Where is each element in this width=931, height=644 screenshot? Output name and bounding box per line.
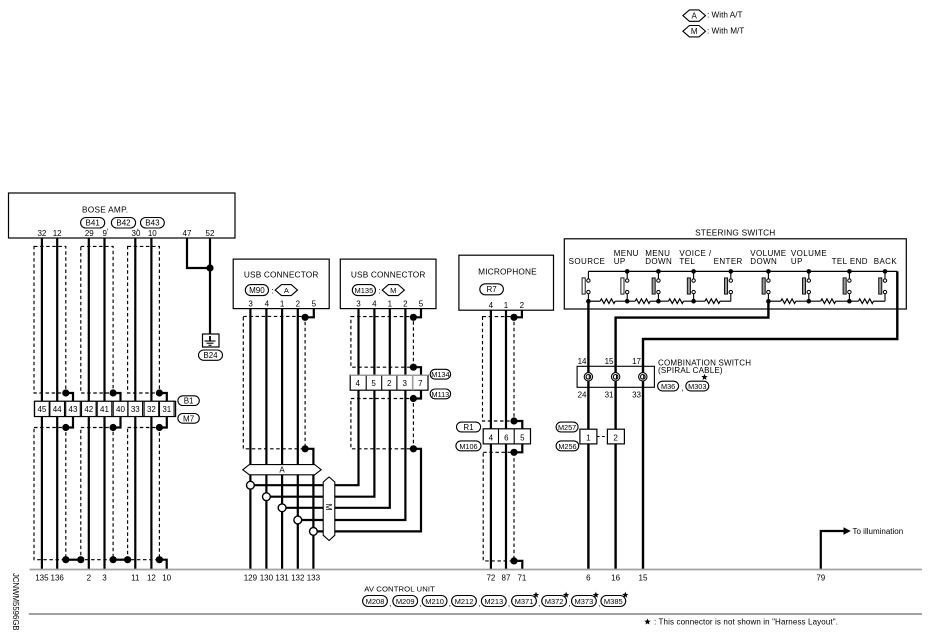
svg-text:6: 6: [586, 574, 591, 583]
svg-text:2: 2: [87, 574, 92, 583]
svg-text:A: A: [279, 466, 285, 475]
svg-text:132: 132: [291, 574, 305, 583]
svg-text:SOURCE: SOURCE: [569, 257, 606, 266]
svg-text:B24: B24: [203, 351, 218, 360]
svg-text:M: M: [691, 27, 698, 36]
svg-text:31: 31: [162, 405, 171, 414]
svg-text:4: 4: [355, 379, 360, 388]
svg-text:7: 7: [418, 379, 423, 388]
svg-text:UP: UP: [791, 257, 803, 266]
svg-text:129: 129: [244, 574, 258, 583]
svg-text:,: ,: [681, 384, 683, 393]
svg-text:: With A/T: : With A/T: [707, 11, 742, 20]
svg-text:M: M: [324, 503, 334, 510]
svg-text:M371: M371: [515, 597, 534, 606]
svg-text:To illumination: To illumination: [853, 527, 904, 536]
svg-text:3: 3: [102, 574, 107, 583]
svg-text:29: 29: [85, 229, 94, 238]
svg-text:,: ,: [538, 599, 540, 608]
svg-text:31: 31: [605, 391, 614, 400]
svg-text:33: 33: [632, 391, 641, 400]
svg-text:M257: M257: [558, 423, 576, 432]
svg-text:41: 41: [100, 405, 109, 414]
svg-text:B1: B1: [184, 397, 194, 406]
svg-text:DOWN: DOWN: [750, 257, 777, 266]
svg-text:M: M: [390, 286, 396, 295]
svg-text:45: 45: [37, 405, 46, 414]
svg-text:M373: M373: [575, 597, 594, 606]
svg-text:52: 52: [206, 229, 215, 238]
svg-text:2: 2: [403, 299, 408, 308]
svg-text:R7: R7: [486, 285, 497, 294]
svg-text:STEERING SWITCH: STEERING SWITCH: [695, 228, 775, 238]
svg-text:40: 40: [116, 405, 125, 414]
svg-text:M213: M213: [484, 597, 503, 606]
svg-text:BOSE AMP.: BOSE AMP.: [82, 205, 128, 215]
svg-text:1: 1: [586, 434, 591, 443]
svg-text:9: 9: [102, 229, 107, 238]
svg-text:10: 10: [148, 229, 157, 238]
svg-text:16: 16: [611, 574, 620, 583]
svg-text:AV CONTROL UNIT: AV CONTROL UNIT: [364, 585, 435, 594]
svg-text:BACK: BACK: [874, 257, 898, 266]
svg-text:M208: M208: [366, 597, 385, 606]
svg-text:M210: M210: [425, 597, 444, 606]
svg-text:(SPIRAL CABLE): (SPIRAL CABLE): [658, 366, 723, 375]
svg-text::: :: [271, 286, 273, 295]
svg-text:,: ,: [568, 599, 570, 608]
svg-text:12: 12: [53, 229, 62, 238]
svg-text:2: 2: [520, 301, 525, 310]
svg-text:M7: M7: [183, 414, 195, 423]
svg-text:: This connector is not shown: : This connector is not shown in "Harnes…: [654, 617, 838, 626]
svg-text:4: 4: [265, 299, 270, 308]
svg-text:M256: M256: [558, 442, 576, 451]
svg-text:M106: M106: [459, 442, 477, 451]
svg-text:: With M/T: : With M/T: [707, 26, 744, 35]
svg-text:M385: M385: [604, 597, 623, 606]
svg-text:A: A: [284, 286, 289, 295]
svg-text:42: 42: [84, 405, 93, 414]
svg-text:3: 3: [248, 299, 253, 308]
svg-text:B41: B41: [86, 219, 101, 228]
svg-text:M113: M113: [432, 390, 450, 399]
svg-text:B43: B43: [145, 219, 160, 228]
svg-text:131: 131: [275, 574, 289, 583]
svg-text:24: 24: [578, 391, 587, 400]
svg-text:5: 5: [419, 299, 424, 308]
svg-text:USB CONNECTOR: USB CONNECTOR: [244, 270, 319, 280]
svg-text:87: 87: [502, 574, 511, 583]
svg-text:10: 10: [162, 574, 171, 583]
svg-text:79: 79: [816, 574, 825, 583]
svg-text:44: 44: [53, 405, 62, 414]
svg-text:1: 1: [280, 299, 285, 308]
svg-text:,: ,: [598, 599, 600, 608]
svg-text:2: 2: [613, 434, 618, 443]
svg-text:TEL END: TEL END: [832, 257, 868, 266]
svg-text:M135: M135: [355, 286, 374, 295]
svg-text:133: 133: [307, 574, 321, 583]
svg-text:43: 43: [69, 405, 78, 414]
svg-text:11: 11: [131, 574, 140, 583]
svg-text:USB CONNECTOR: USB CONNECTOR: [351, 270, 426, 280]
svg-text:UP: UP: [614, 257, 626, 266]
svg-text:,: ,: [508, 599, 510, 608]
svg-text:15: 15: [605, 357, 614, 366]
svg-text:A: A: [692, 12, 698, 21]
svg-text:136: 136: [51, 574, 65, 583]
svg-text:3: 3: [356, 299, 361, 308]
svg-text:TEL: TEL: [679, 257, 695, 266]
svg-text:130: 130: [260, 574, 274, 583]
svg-text:5: 5: [520, 433, 525, 442]
svg-text:135: 135: [35, 574, 49, 583]
svg-text:32: 32: [147, 405, 156, 414]
svg-text:M209: M209: [396, 597, 415, 606]
svg-text:71: 71: [517, 574, 526, 583]
svg-text:4: 4: [489, 433, 494, 442]
svg-text::: :: [378, 286, 380, 295]
svg-text:B42: B42: [116, 219, 131, 228]
svg-text:5: 5: [371, 379, 376, 388]
svg-text:30: 30: [132, 229, 141, 238]
svg-text:72: 72: [486, 574, 495, 583]
svg-text:4: 4: [489, 301, 494, 310]
svg-text:DOWN: DOWN: [645, 257, 672, 266]
svg-text:,: ,: [419, 599, 421, 608]
svg-text:15: 15: [639, 574, 648, 583]
svg-text:3: 3: [402, 379, 407, 388]
svg-text:33: 33: [131, 405, 140, 414]
svg-text:2: 2: [387, 379, 392, 388]
svg-text:R1: R1: [463, 423, 474, 432]
svg-text:MICROPHONE: MICROPHONE: [478, 266, 537, 276]
svg-text:JCNWM5596GB: JCNWM5596GB: [11, 573, 20, 631]
svg-text:M212: M212: [455, 597, 474, 606]
svg-text:ENTER: ENTER: [714, 257, 743, 266]
svg-text:M36: M36: [661, 382, 675, 391]
svg-text:12: 12: [147, 574, 156, 583]
svg-text:1: 1: [504, 301, 509, 310]
svg-text:6: 6: [504, 433, 509, 442]
svg-text:M90: M90: [249, 286, 265, 295]
svg-text:M303: M303: [688, 382, 706, 391]
svg-text:M134: M134: [431, 370, 449, 379]
svg-text:,: ,: [478, 599, 480, 608]
svg-text:32: 32: [37, 229, 46, 238]
svg-text:17: 17: [632, 357, 641, 366]
svg-text:47: 47: [183, 229, 192, 238]
svg-text:M372: M372: [545, 597, 564, 606]
svg-text:5: 5: [312, 299, 317, 308]
svg-text:1: 1: [388, 299, 393, 308]
svg-text:,: ,: [389, 599, 391, 608]
svg-text:4: 4: [372, 299, 377, 308]
svg-text:,: ,: [449, 599, 451, 608]
svg-text:14: 14: [578, 357, 587, 366]
svg-text:2: 2: [296, 299, 301, 308]
